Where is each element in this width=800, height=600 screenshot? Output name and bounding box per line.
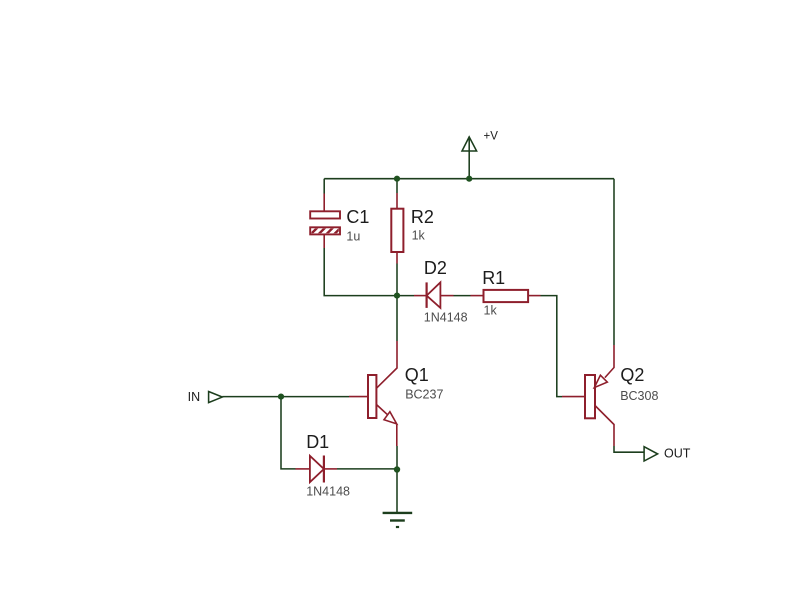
svg-text:Q1: Q1	[405, 365, 429, 385]
svg-text:D1: D1	[306, 432, 329, 452]
svg-text:1u: 1u	[346, 229, 360, 243]
svg-text:R2: R2	[411, 207, 434, 227]
svg-text:1N4148: 1N4148	[306, 485, 350, 499]
svg-text:1k: 1k	[484, 304, 498, 318]
svg-text:1k: 1k	[412, 229, 426, 243]
svg-text:1N4148: 1N4148	[424, 311, 468, 325]
svg-text:BC308: BC308	[620, 389, 658, 403]
svg-text:+V: +V	[484, 131, 499, 143]
svg-text:D2: D2	[424, 258, 447, 278]
svg-text:C1: C1	[346, 207, 369, 227]
svg-text:Q2: Q2	[620, 365, 644, 385]
svg-text:IN: IN	[188, 390, 201, 404]
svg-text:BC237: BC237	[405, 387, 443, 401]
svg-text:R1: R1	[482, 268, 505, 288]
svg-text:OUT: OUT	[664, 447, 691, 461]
